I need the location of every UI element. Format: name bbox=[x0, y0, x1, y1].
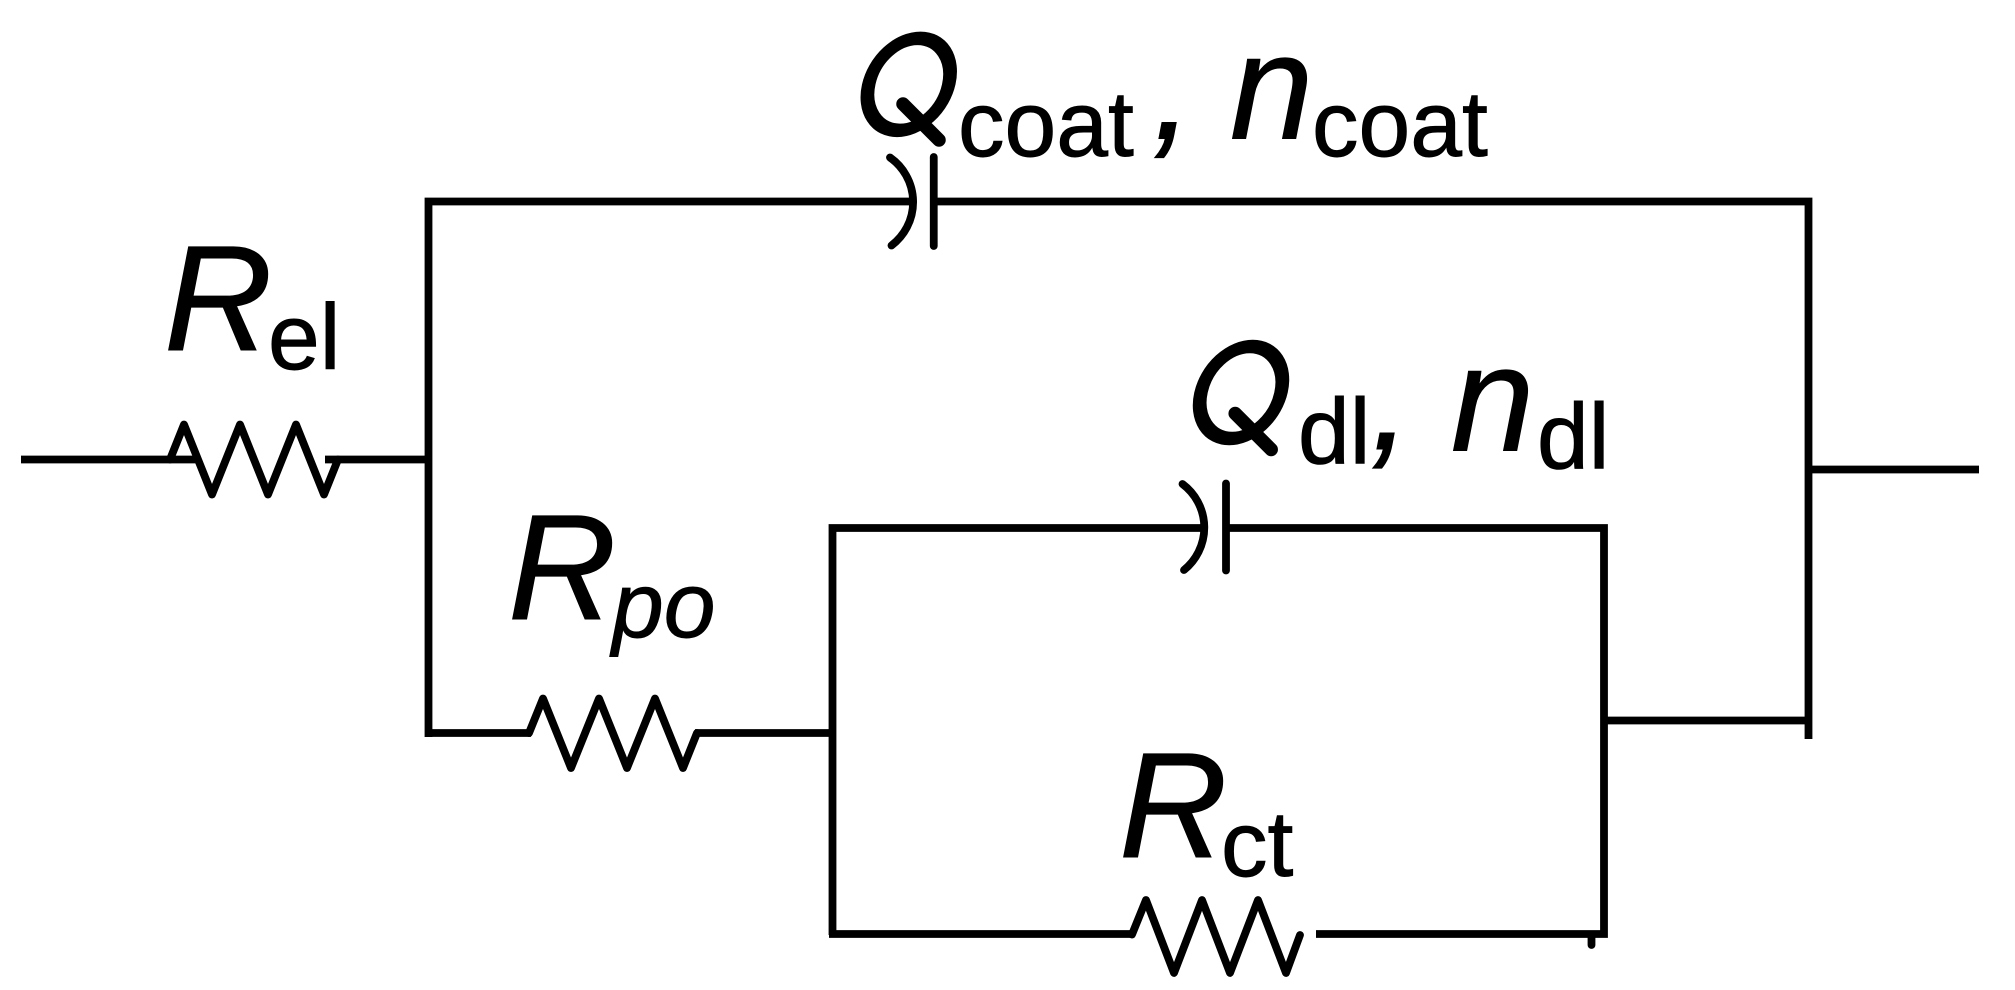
wire: top rail (Q_coat to node B) + outer loop right vertical bbox=[934, 202, 1809, 740]
label Q_dl: main letter Q (drawn italic Q: oval + slash) bbox=[1191, 347, 1292, 450]
svg-text:po: po bbox=[609, 553, 715, 657]
svg-text:dl: dl bbox=[1298, 380, 1370, 484]
resistor R_ct (zigzag) bbox=[1132, 900, 1300, 973]
wire: external lead, right output from node B bbox=[1808, 466, 1979, 474]
wire: inner loop left vertical + top rail (to Q_dl) bbox=[833, 528, 1207, 935]
capacitor Q_coat CPE, straight right plate bbox=[930, 157, 938, 246]
svg-text:R: R bbox=[1119, 721, 1227, 889]
resistor R_po (zigzag) bbox=[529, 699, 697, 769]
wire: inner loop bottom rail left part (to R_ct) bbox=[829, 930, 1131, 938]
wire: R_po to inner parallel left node bbox=[695, 729, 836, 737]
svg-text:,: , bbox=[1152, 3, 1194, 171]
capacitor Q_dl CPE, straight right plate bbox=[1222, 484, 1230, 571]
capacitor Q_dl CPE, curved left plate bbox=[1183, 484, 1205, 570]
svg-text:R: R bbox=[508, 483, 616, 651]
svg-text:ct: ct bbox=[1221, 792, 1294, 896]
label Q_coat: main letter Q (drawn italic Q: oval + slash) bbox=[858, 38, 959, 140]
wire: R_el to node A (outer parallel left node) bbox=[325, 456, 432, 464]
wire: outer loop left vertical + top rail (node A to Q_coat) bbox=[429, 202, 916, 738]
svg-text:coat: coat bbox=[1312, 72, 1488, 176]
wire: inner loop top rail (Q_dl to right) + right vertical + bottom rail right part bbox=[1226, 528, 1604, 934]
svg-text:n: n bbox=[1230, 3, 1313, 171]
svg-text:R: R bbox=[164, 214, 272, 382]
resistor R_el (zigzag) bbox=[170, 425, 338, 495]
svg-text:coat: coat bbox=[958, 72, 1134, 176]
wire: node A down-branch to R_po bbox=[425, 729, 531, 737]
junction stub on inner loop bottom rail bbox=[1588, 936, 1596, 945]
capacitor Q_coat CPE, curved left plate bbox=[890, 158, 913, 246]
svg-text:dl: dl bbox=[1537, 385, 1609, 489]
svg-text:el: el bbox=[268, 285, 340, 389]
wire: connector, inner loop right node to node B bbox=[1604, 717, 1808, 725]
svg-text:n: n bbox=[1451, 315, 1534, 483]
wire: external lead, left input bbox=[21, 456, 196, 464]
svg-text:,: , bbox=[1370, 313, 1412, 481]
